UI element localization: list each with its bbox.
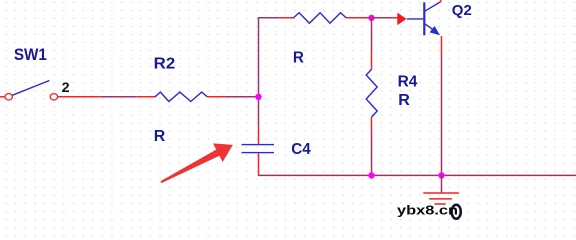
transistor Q2 base bar xyxy=(423,2,425,35)
wire: R2 to node A (red segment) xyxy=(207,96,226,98)
wire: emitter down (red segment) xyxy=(441,36,443,56)
wire: bottom rail (plum) xyxy=(258,174,576,176)
svg-text:R2: R2 xyxy=(154,56,176,73)
wire: R4 down to bottom rail (plum segment) xyxy=(371,132,373,175)
node D junction dot (emitter/ground to bottom rail) xyxy=(438,172,444,178)
switch SW1 left terminal circle xyxy=(5,94,12,100)
wire: left stub into switch SW1 xyxy=(0,96,5,98)
svg-text:R: R xyxy=(154,128,166,145)
wire: R2 to node A (plum segment) xyxy=(226,96,259,98)
transistor Q2 base lead xyxy=(407,18,423,20)
svg-text:R: R xyxy=(398,92,410,109)
wire: C4 bottom plate down to corner (red) xyxy=(258,154,260,175)
node C junction dot (R4 to bottom rail) xyxy=(368,172,374,178)
wire: plum to R2 (red segment) xyxy=(137,96,156,98)
ground bar 3 xyxy=(434,203,445,205)
ground net label 0 xyxy=(452,205,461,219)
svg-text:ybx8.cn: ybx8.cn xyxy=(397,203,458,218)
svg-text:R4: R4 xyxy=(398,73,418,90)
svg-text:Q2: Q2 xyxy=(452,2,472,19)
transistor Q2 emitter lead xyxy=(425,24,437,32)
wire: top rail corner to resistor R (plum segment) xyxy=(258,17,279,19)
wire: top resistor to node B (red segment) xyxy=(346,17,371,19)
wire: vertical riser node A up to top rail xyxy=(258,17,260,96)
red arrow on base wire xyxy=(397,13,406,26)
wire: switch to R2 (red segment) xyxy=(58,96,101,98)
resistor R4 zigzag xyxy=(366,69,377,117)
resistor R (top) zigzag xyxy=(293,13,346,24)
wire: node B to transistor (plum segment) xyxy=(372,17,392,19)
node B junction dot xyxy=(368,15,374,21)
resistor R2 zigzag xyxy=(155,92,207,101)
wire: node A down to C4 (plum segment) xyxy=(258,97,260,125)
svg-text:C4: C4 xyxy=(291,141,311,158)
ground bar 2 xyxy=(429,198,452,200)
annotation arrow pointing at C4 xyxy=(160,143,233,183)
svg-text:R: R xyxy=(293,49,304,66)
wire: node B down (plum segment) xyxy=(371,18,373,53)
ground bar 1 xyxy=(423,192,459,194)
wire: top rail (red segment) xyxy=(278,17,293,19)
wire: down to R4 (red segment) xyxy=(371,53,373,69)
node A junction dot xyxy=(255,94,261,100)
switch SW1 right terminal circle xyxy=(50,94,57,100)
wire: emitter down (plum segment) xyxy=(441,56,443,175)
transistor Q2 collector lead xyxy=(425,2,441,11)
ground stem xyxy=(441,175,443,192)
svg-text:2: 2 xyxy=(62,79,70,95)
wire: switch to R2 (plum segment) xyxy=(101,96,137,98)
wire: red stub to C4 top plate xyxy=(258,125,260,144)
capacitor C4 top plate xyxy=(242,144,275,145)
wire: R4 down (red segment) xyxy=(371,117,373,132)
wire: collector stub to top edge xyxy=(440,0,442,3)
switch SW1 lever xyxy=(13,81,50,96)
transistor Q2 emitter arrowhead xyxy=(430,26,440,35)
wire: red stub before base arrow xyxy=(391,17,398,19)
svg-text:SW1: SW1 xyxy=(14,46,47,64)
capacitor C4 bottom plate xyxy=(242,152,275,153)
